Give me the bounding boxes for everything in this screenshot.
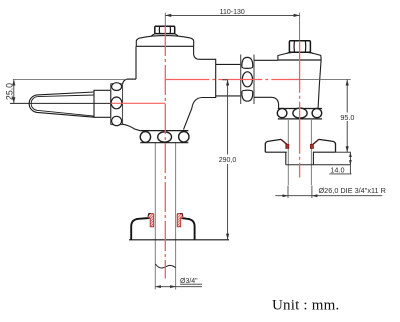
pipe break squiggle [155, 264, 175, 268]
clip right (red) [177, 213, 183, 226]
svg-text:290,0: 290,0 [219, 157, 237, 164]
outlet pipe to coupling [216, 64, 241, 96]
svg-text:110-130: 110-130 [220, 9, 245, 16]
svg-text:14.0: 14.0 [330, 165, 344, 174]
dim 95.0 [300, 79, 351, 81]
right flange collar [286, 152, 314, 165]
centerline pipe axis horizontal [165, 79, 299, 81]
svg-text:Ø26,0 DIE 3/4"x11 R: Ø26,0 DIE 3/4"x11 R [319, 186, 386, 195]
centerline handle axis [111, 102, 166, 104]
dim 14.0 [349, 152, 351, 174]
dim diameter 26 label [275, 186, 382, 198]
right valve body [318, 60, 321, 108]
handle collar [111, 83, 123, 126]
right flange right wing [310, 139, 335, 152]
dim 290,0 [222, 80, 227, 240]
centerline right valve vertical [299, 41, 301, 178]
wall line [286, 164, 351, 166]
right flange left wing [265, 139, 289, 152]
dim diameter 3/4 label [155, 284, 202, 287]
main pipe down [155, 143, 175, 290]
dim 25.0 [10, 80, 136, 104]
dim 110-130 [165, 13, 299, 41]
clip left (red) [148, 213, 154, 226]
hex nut right [289, 41, 310, 53]
centerline main valve vertical [164, 26, 166, 279]
inter pipe to right valve [254, 60, 279, 109]
right valve cap [278, 52, 321, 60]
flange bottom ext to dim [336, 151, 351, 153]
svg-text:Unit : mm.: Unit : mm. [272, 298, 339, 314]
left flange (escutcheon) [129, 218, 229, 240]
handle lever [29, 92, 94, 117]
right bottom coupling [277, 108, 322, 119]
bottom coupling left valve [140, 131, 189, 143]
svg-text:25.0: 25.0 [4, 83, 14, 100]
hex nut left [155, 26, 175, 33]
handle block [94, 90, 111, 117]
svg-text:Ø3/4": Ø3/4" [180, 278, 198, 285]
right pipe [288, 119, 311, 185]
bonnet cap left [136, 34, 193, 47]
svg-text:95.0: 95.0 [340, 113, 354, 122]
coupling nut middle [241, 55, 254, 105]
valve body left [123, 46, 216, 130]
